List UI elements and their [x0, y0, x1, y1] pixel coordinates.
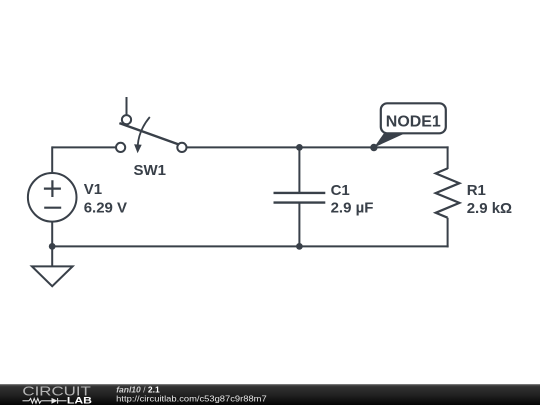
- wire: V1 top vertical: [51, 146, 53, 172]
- wire: bottom horizontal: [52, 245, 448, 247]
- resistor R1: [436, 168, 460, 217]
- svg-text:C1: C1: [331, 182, 350, 199]
- svg-text:R1: R1: [467, 182, 486, 199]
- capacitor C1 lower lead: [298, 203, 300, 248]
- switch blade: [119, 123, 178, 144]
- voltage source V1: [28, 173, 77, 222]
- node NODE1 dot: [370, 144, 377, 151]
- svg-text:LAB: LAB: [67, 395, 92, 405]
- capacitor C1 upper lead: [298, 146, 300, 193]
- capacitor C1 plates: [274, 193, 326, 203]
- CircuitLab logo wire squiggle with resistor and diode: [23, 398, 67, 404]
- svg-text:6.29 V: 6.29 V: [84, 199, 127, 216]
- junction dot at C1 bottom: [296, 243, 303, 250]
- svg-text:2.9 µF: 2.9 µF: [331, 199, 374, 216]
- wire: top horizontal from switch right terminal to top-right corner: [186, 146, 448, 148]
- svg-text:http://circuitlab.com/c53g87c9: http://circuitlab.com/c53g87c9r88m7: [116, 394, 267, 404]
- svg-text:V1: V1: [84, 181, 102, 198]
- svg-text:SW1: SW1: [134, 162, 167, 179]
- switch top terminal: [122, 115, 131, 124]
- wire: V1 bottom vertical to ground: [51, 222, 53, 267]
- wire: switch upper stub: [126, 97, 128, 116]
- junction dot at V1 bottom: [49, 243, 56, 250]
- node NODE1 callout tail: [374, 131, 410, 148]
- switch action arrow: [138, 117, 150, 145]
- switch left terminal: [116, 143, 125, 152]
- junction dot at C1 top: [296, 144, 303, 151]
- switch SW1: [116, 115, 186, 153]
- wire: right vertical upper lead of R1: [447, 146, 449, 169]
- wire: right vertical lower lead of R1: [447, 218, 449, 248]
- node NODE1 callout box: [381, 103, 446, 133]
- wire: top-left horizontal from V1 top corner to switch left terminal: [52, 146, 116, 148]
- ground: [32, 266, 73, 286]
- svg-text:2.9 kΩ: 2.9 kΩ: [467, 200, 512, 217]
- svg-text:NODE1: NODE1: [386, 114, 441, 131]
- switch right terminal: [177, 143, 186, 152]
